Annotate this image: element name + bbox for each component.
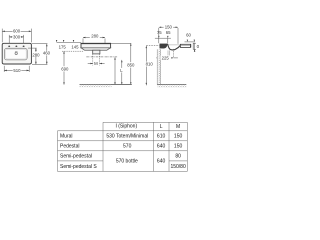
svg-text:690: 690 — [61, 66, 69, 71]
svg-text:145: 145 — [71, 44, 79, 49]
svg-text:I (Siphon): I (Siphon) — [115, 124, 137, 130]
svg-text:L: L — [160, 124, 163, 130]
svg-text:150: 150 — [165, 25, 173, 30]
svg-text:Semi-pedestal S: Semi-pedestal S — [60, 164, 97, 170]
svg-text:530 Totem/Minimal: 530 Totem/Minimal — [106, 133, 148, 139]
svg-text:0: 0 — [197, 44, 200, 49]
svg-text:570 bottle: 570 bottle — [116, 159, 138, 165]
svg-text:810: 810 — [146, 62, 154, 67]
svg-text:640: 640 — [157, 159, 166, 165]
svg-text:280: 280 — [32, 52, 40, 57]
svg-text:80: 80 — [175, 153, 181, 159]
svg-text:225: 225 — [162, 55, 170, 60]
svg-text:M: M — [94, 61, 98, 66]
svg-text:175: 175 — [59, 44, 67, 49]
svg-text:300: 300 — [13, 34, 21, 39]
svg-text:610: 610 — [157, 133, 166, 139]
svg-text:150: 150 — [174, 133, 183, 139]
svg-text:65: 65 — [166, 30, 171, 35]
svg-text:Mural: Mural — [60, 134, 73, 140]
svg-text:Semi-pedestal: Semi-pedestal — [60, 154, 92, 160]
svg-text:60: 60 — [186, 32, 191, 37]
svg-text:Pedestal: Pedestal — [60, 144, 79, 150]
svg-text:280: 280 — [91, 33, 99, 38]
svg-text:850: 850 — [127, 62, 135, 67]
svg-text:75: 75 — [157, 30, 162, 35]
svg-text:640: 640 — [157, 143, 166, 149]
svg-text:M: M — [176, 124, 180, 130]
svg-text:150/80: 150/80 — [170, 164, 186, 170]
svg-text:510: 510 — [13, 68, 21, 73]
svg-text:460: 460 — [43, 50, 51, 55]
svg-text:600: 600 — [13, 29, 21, 34]
svg-text:570: 570 — [123, 143, 132, 149]
svg-text:150: 150 — [174, 143, 183, 149]
